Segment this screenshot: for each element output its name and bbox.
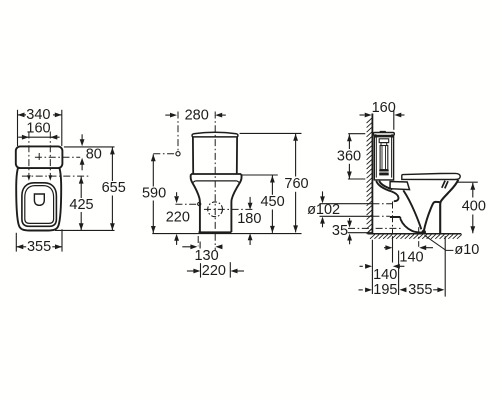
svg-text:450: 450 <box>260 194 284 210</box>
seat shelf bottom line <box>195 180 237 182</box>
lid bolt right <box>391 134 394 137</box>
flush hole circle o102 (front) <box>208 202 223 217</box>
dim 340 right extension line <box>61 110 63 146</box>
inlet connector dash-dot <box>153 153 175 155</box>
dim 220 bottom right arrow <box>237 270 244 272</box>
fixing hole centreline <box>418 227 420 247</box>
flush valve tube right <box>385 146 387 170</box>
svg-text:360: 360 <box>337 148 361 164</box>
rim corner outer stroke <box>445 181 448 188</box>
svg-text:590: 590 <box>142 186 166 202</box>
valve seat lower band <box>379 173 389 176</box>
dim 340 left extension line <box>17 110 19 146</box>
dim 35 floor extension <box>348 232 373 234</box>
outlet bottom curve <box>400 219 423 233</box>
cistern wall inner right <box>391 137 393 178</box>
dim 195 left arrow <box>359 289 363 291</box>
dim 140 upper right arrow <box>426 247 433 249</box>
outlet pipe top extension <box>320 203 373 205</box>
water inlet node (tank) <box>176 152 180 156</box>
dim 400 line lower <box>472 215 474 234</box>
tank top extension line <box>240 132 302 134</box>
dim 340 line left stub <box>18 114 27 116</box>
bowl underside curve (side) <box>403 190 421 229</box>
svg-text:220: 220 <box>202 263 226 279</box>
dim 590 line upper <box>152 154 154 186</box>
svg-text:195: 195 <box>373 282 397 298</box>
outlet pipe bottom extension <box>320 215 373 217</box>
flush hole horizontal centreline <box>204 208 255 210</box>
dim 160 tank extension <box>393 110 395 130</box>
dim 220 bottom left tick <box>200 263 202 277</box>
dim 340 line right stub <box>53 114 62 116</box>
tank centre cross vertical <box>38 153 40 161</box>
svg-text:140: 140 <box>399 249 423 265</box>
dim 140 upper left arrow <box>384 247 386 249</box>
wall face line <box>371 114 373 234</box>
floor hatching <box>370 234 462 238</box>
svg-text:35: 35 <box>332 223 348 239</box>
hinge hole centreline right <box>49 132 51 176</box>
svg-text:ø102: ø102 <box>307 202 340 218</box>
bowl left side to pedestal <box>191 174 200 232</box>
floor line <box>368 233 462 235</box>
dim 355 right stub <box>433 289 439 291</box>
outlet stub end tick <box>399 217 401 219</box>
svg-text:140: 140 <box>373 267 397 283</box>
dim 590 line lower <box>152 201 154 234</box>
dim 400 top extension <box>457 181 478 183</box>
seat profile (side) <box>402 173 460 179</box>
cistern wall inner left <box>375 137 377 178</box>
centreline extension below floor <box>214 234 216 251</box>
bolt centreline below floor <box>197 236 199 246</box>
outlet pipe bottom dashed <box>372 215 390 217</box>
svg-text:655: 655 <box>102 180 126 196</box>
dim 280 left arrow <box>165 114 173 116</box>
dim 655 line lower <box>111 196 113 231</box>
dim 35 bottom arrow <box>349 240 351 245</box>
svg-text:355: 355 <box>408 282 432 298</box>
bowl bulge curve (side) <box>424 202 440 231</box>
dim 425 line upper <box>80 177 82 198</box>
dim 360 line upper <box>348 134 350 149</box>
flush elbow outer <box>376 181 391 192</box>
wall hatching <box>367 118 373 234</box>
flush button (side) <box>380 130 386 133</box>
cistern body sides (front) <box>193 137 237 174</box>
cistern lid (side) <box>373 133 394 136</box>
dim 355 right extension <box>444 236 446 296</box>
dim 355 left stub <box>405 289 407 291</box>
dim o102 bottom arrow <box>322 223 324 227</box>
dim 760 line upper <box>295 134 297 177</box>
flush valve body <box>380 146 388 170</box>
dim 360 bottom extension <box>348 178 365 180</box>
fill valve cap <box>379 139 389 143</box>
dim 80 top arrow <box>81 134 83 139</box>
dim 35 top arrow <box>349 218 351 221</box>
dim 450 line lower <box>271 210 273 233</box>
floor reference line (front) <box>152 233 301 235</box>
svg-text:280: 280 <box>185 107 209 123</box>
dim 355 right extension line <box>61 229 63 251</box>
fill valve neck <box>381 143 387 146</box>
rim corner inner stroke <box>442 181 445 188</box>
inlet height dash-dot <box>175 203 197 205</box>
pedestal base bold line <box>199 231 232 233</box>
hinge hole centreline left <box>28 132 30 176</box>
dim 655 line upper <box>111 147 113 181</box>
dim 140 lower right arrow <box>399 265 405 267</box>
dim 35 dash-dot line <box>348 227 401 229</box>
outlet pipe top dashed <box>372 203 392 205</box>
flush hole (plan) <box>34 194 44 205</box>
bowl right side to pedestal <box>231 174 241 232</box>
dim 280 right arrow <box>219 114 226 116</box>
hinge centreline horizontal <box>22 175 90 177</box>
dim 80 bottom arrow <box>81 164 83 170</box>
svg-text:80: 80 <box>86 147 102 163</box>
dim 360 line lower <box>348 164 350 179</box>
seat shelf left chamfer <box>193 181 196 183</box>
dim 220 left top arrow <box>176 192 178 196</box>
svg-text:ø10: ø10 <box>454 242 479 258</box>
seat hinge block (side) <box>390 182 410 190</box>
water inlet centreline vertical <box>177 112 179 152</box>
outlet extension below floor <box>392 236 394 262</box>
bowl front extension line <box>55 229 115 231</box>
flush elbow inner <box>379 181 392 190</box>
svg-text:160: 160 <box>372 100 396 116</box>
svg-text:400: 400 <box>462 199 486 215</box>
dim 220 left bottom arrow <box>176 240 178 245</box>
dim 400 line upper <box>472 183 474 198</box>
flush valve tube left <box>381 146 383 170</box>
dim 180 bottom arrow <box>249 240 251 245</box>
seat shelf right chamfer <box>237 181 240 183</box>
dim 450 line upper <box>271 176 273 195</box>
svg-text:760: 760 <box>284 176 308 192</box>
lid bolt left <box>374 134 377 137</box>
cistern lid bottom line <box>192 136 238 138</box>
outlet centreline dash-dot <box>392 202 394 235</box>
fixing hole dot <box>421 230 426 235</box>
svg-text:160: 160 <box>26 120 50 136</box>
dim 355 line right stub <box>52 246 62 248</box>
tank centre cross horizontal <box>35 156 80 158</box>
valve seat upper band <box>379 170 389 172</box>
seat outer ring (plan) <box>22 183 57 227</box>
seat shelf top line <box>191 173 241 175</box>
seat top extension line <box>241 174 277 176</box>
dim 130 left arrow <box>182 246 190 248</box>
dim 760 line lower <box>295 192 297 233</box>
bowl outer profile (side) <box>440 180 458 233</box>
dim 355 left extension line <box>15 233 17 252</box>
dim 195 right extension <box>398 251 400 296</box>
dim 425 line lower <box>80 212 82 230</box>
cistern lid (front) <box>192 132 238 137</box>
svg-text:220: 220 <box>166 209 190 225</box>
dim 360 top extension <box>348 133 365 135</box>
dim 160 right arrow <box>400 114 405 116</box>
inlet node (bowl) <box>198 202 201 205</box>
dim o102 top arrow <box>322 191 324 196</box>
cistern box outer (side) <box>374 137 393 180</box>
o10 leader line <box>425 235 454 250</box>
pedestal edge tick below floor <box>199 242 201 249</box>
dim 160 line <box>18 136 59 138</box>
dim 355 line left stub <box>16 246 26 248</box>
dim 180 top arrow <box>249 197 251 203</box>
dim 140 lower left arrow <box>360 265 363 267</box>
dim 130 right arrow <box>219 246 223 248</box>
dim 220 bottom left arrow <box>187 270 194 272</box>
bowl outline (plan) <box>16 168 61 230</box>
cistern (plan view) <box>16 146 63 168</box>
outlet stub bold line <box>390 216 401 218</box>
svg-text:425: 425 <box>69 197 93 213</box>
dim 220 bottom right tick <box>229 262 231 277</box>
dim 160 left arrow <box>360 114 365 116</box>
dim 80 extension line <box>64 146 115 148</box>
svg-text:180: 180 <box>237 211 261 227</box>
seat inner ring (plan) <box>25 186 54 224</box>
front view centreline <box>214 112 216 232</box>
wall extension below floor <box>371 240 373 294</box>
svg-text:355: 355 <box>27 239 51 255</box>
bowl inlet spud <box>391 191 398 201</box>
